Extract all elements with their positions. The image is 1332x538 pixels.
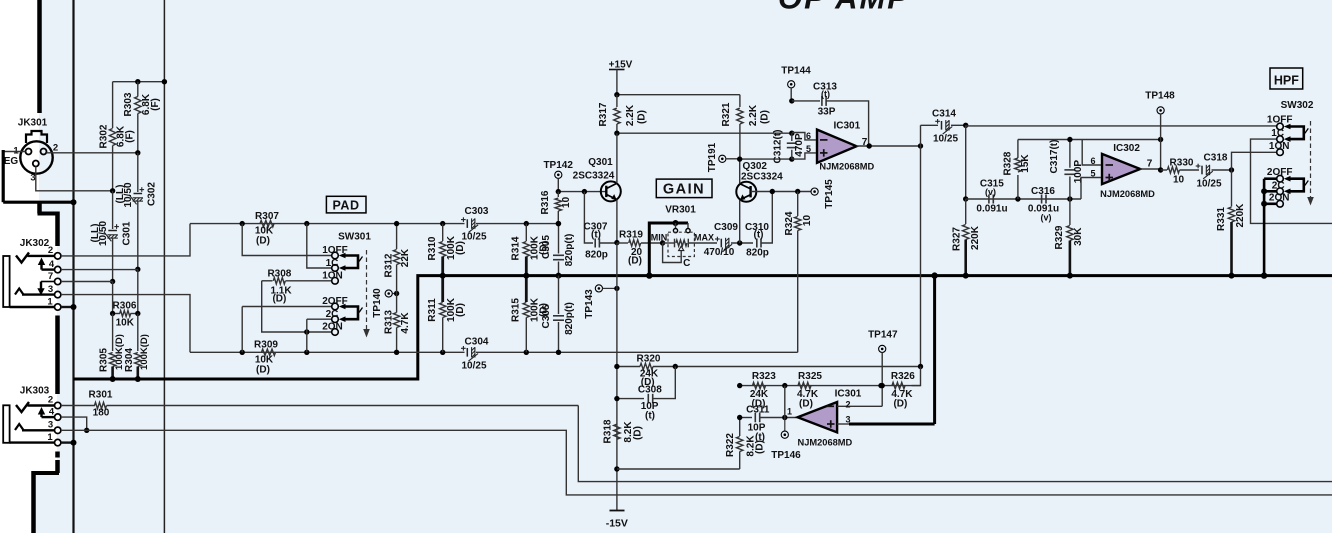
svg-text:R303: R303 <box>123 92 134 116</box>
resistor R314 <box>511 224 550 302</box>
svg-text:1: 1 <box>47 432 53 443</box>
svg-text:NJM2068MD: NJM2068MD <box>798 437 853 447</box>
svg-text:TP148: TP148 <box>1145 90 1175 101</box>
capacitor C313 <box>789 81 869 146</box>
svg-text:3: 3 <box>48 420 53 431</box>
box PAD <box>326 196 366 213</box>
svg-text:2C: 2C <box>1272 180 1285 191</box>
wire JK302 pin3 row <box>61 295 190 353</box>
op-amp IC302 pin6 <box>1082 140 1113 167</box>
svg-text:1C: 1C <box>326 258 339 269</box>
resistor R327 <box>952 199 982 279</box>
svg-text:33P: 33P <box>818 106 836 117</box>
svg-text:C: C <box>683 258 690 269</box>
wire IC302 output <box>1140 159 1163 173</box>
resistor R320 <box>614 354 923 389</box>
capacitor C309 <box>704 222 753 258</box>
connector JK303 ring contact <box>38 407 55 417</box>
resistor R319 <box>617 230 663 267</box>
switch SW301 bracket 1 <box>339 253 363 271</box>
switch SW302 contact 1OFF <box>1267 115 1293 130</box>
node R328 bottom <box>1015 196 1020 201</box>
svg-text:2SC3324: 2SC3324 <box>573 171 615 182</box>
resistor R328 <box>1003 140 1032 200</box>
svg-text:R313: R313 <box>384 310 395 334</box>
testpoint TP140 <box>372 288 399 318</box>
capacitor C310 <box>745 192 772 259</box>
connector JK302 pin1 <box>47 297 61 311</box>
svg-text:10/25: 10/25 <box>1196 178 1221 189</box>
node C314 out <box>963 123 968 128</box>
svg-text:OP AMP: OP AMP <box>778 0 910 16</box>
svg-text:10K: 10K <box>116 318 135 329</box>
switch SW302 bracket 1 <box>1284 124 1309 142</box>
svg-text:R307: R307 <box>255 211 279 222</box>
wire JK302 pin4 row <box>61 269 138 271</box>
svg-text:TP145: TP145 <box>824 179 835 209</box>
resistor R303 <box>123 82 161 153</box>
svg-text:EG: EG <box>4 156 19 167</box>
switch SW302 contact 2ON <box>1269 192 1290 207</box>
svg-text:R329: R329 <box>1054 225 1065 249</box>
svg-text:SW302: SW302 <box>1281 100 1314 111</box>
svg-text:IC302: IC302 <box>1113 143 1140 154</box>
svg-text:-15V: -15V <box>606 518 628 530</box>
svg-text:(t): (t) <box>591 230 601 241</box>
svg-text:MIN: MIN <box>651 232 668 242</box>
switch SW301 linkage dashed <box>363 250 370 338</box>
svg-text:R309: R309 <box>254 340 278 351</box>
node R305 bus junction <box>110 376 116 382</box>
svg-text:MAX: MAX <box>694 232 714 242</box>
wire R308 to 2ON <box>262 281 332 335</box>
connector JK301 pin2 contact <box>41 143 59 155</box>
transistor Q302 <box>736 159 783 243</box>
wire JK301 pin3 down-right <box>36 167 113 191</box>
svg-text:1ON: 1ON <box>322 270 343 281</box>
wire emitter column lower <box>616 243 618 511</box>
resistor R323 <box>750 371 776 409</box>
resistor R309 <box>240 340 310 376</box>
svg-text:30K: 30K <box>1073 227 1084 246</box>
resistor R315 <box>511 297 550 352</box>
wire JK303 pin2 long run <box>578 406 1332 482</box>
resistor R324 <box>784 192 813 353</box>
svg-text:820p: 820p <box>585 249 608 260</box>
capacitor C301 <box>90 191 132 282</box>
switch SW302 contact 1C <box>1271 128 1284 142</box>
svg-text:6: 6 <box>806 131 811 141</box>
svg-text:10/25: 10/25 <box>461 360 486 371</box>
svg-text:R324: R324 <box>784 211 795 235</box>
svg-text:5: 5 <box>806 144 811 154</box>
svg-text:7: 7 <box>1147 159 1153 170</box>
capacitor C307 <box>584 192 617 261</box>
svg-text:R327: R327 <box>952 227 963 251</box>
title OP AMP <box>778 0 910 16</box>
wire output to R320 column <box>920 125 922 366</box>
capacitor C303 <box>440 206 529 243</box>
op-amp IC302 pin5 <box>1081 169 1113 200</box>
resistor R326 <box>891 371 915 409</box>
svg-text:R301: R301 <box>89 390 113 401</box>
svg-text:5: 5 <box>1090 169 1095 179</box>
svg-text:TP191: TP191 <box>707 142 718 172</box>
svg-text:C317(t): C317(t) <box>1049 140 1060 174</box>
wire JK302 pin1 to bus <box>61 304 77 310</box>
svg-text:180: 180 <box>93 408 110 419</box>
svg-text:R320: R320 <box>637 354 661 365</box>
svg-text:C318: C318 <box>1204 152 1228 163</box>
svg-text:R325: R325 <box>798 371 822 382</box>
svg-text:C311: C311 <box>746 404 770 415</box>
resistor R318 <box>603 419 644 443</box>
node VR301 min <box>660 240 665 245</box>
svg-text:(t): (t) <box>821 89 830 99</box>
svg-text:10/25: 10/25 <box>933 133 958 144</box>
testpoint TP146 <box>771 418 801 461</box>
wire R323 row <box>737 383 921 388</box>
pot VR301 top thick <box>649 220 690 276</box>
svg-text:(t): (t) <box>755 432 765 443</box>
svg-text:6: 6 <box>1090 156 1095 166</box>
testpoint TP145 <box>811 179 835 209</box>
svg-text:JK302: JK302 <box>20 238 50 249</box>
svg-text:TP144: TP144 <box>781 66 811 77</box>
testpoint TP142 <box>543 160 573 191</box>
wire HPF mid row <box>966 198 1081 200</box>
svg-text:R311: R311 <box>427 298 438 322</box>
svg-text:2: 2 <box>48 245 53 256</box>
connector JK301 label <box>18 118 48 129</box>
connector JK303 tip contact <box>16 402 55 412</box>
connector JK303 pin2 <box>48 395 61 409</box>
wire JK303 pin3 long run <box>61 430 1332 495</box>
resistor R311 <box>427 297 466 352</box>
switch SW302 contact 1ON <box>1269 141 1290 156</box>
svg-text:10: 10 <box>561 196 572 208</box>
svg-text:2SC3324: 2SC3324 <box>741 172 783 183</box>
capacitor C302 <box>115 153 158 269</box>
svg-text:10: 10 <box>802 215 813 227</box>
svg-text:IC301: IC301 <box>833 120 860 131</box>
box GAIN <box>656 179 712 198</box>
svg-text:2C: 2C <box>326 309 339 320</box>
wire Q302 base row <box>751 189 811 194</box>
svg-text:VR301: VR301 <box>665 204 696 215</box>
svg-text:(D): (D) <box>633 426 644 440</box>
svg-text:PAD: PAD <box>333 198 360 212</box>
svg-text:4.7K: 4.7K <box>400 312 411 334</box>
svg-text:(D): (D) <box>760 110 771 124</box>
svg-text:R319: R319 <box>619 230 643 241</box>
wire IC301 A output <box>857 137 924 149</box>
svg-text:R310: R310 <box>427 236 438 260</box>
svg-text:(F): (F) <box>125 130 136 143</box>
resistor R304 <box>124 314 150 380</box>
switch SW301 label <box>338 232 371 243</box>
connector JK303 pin3 <box>48 420 61 434</box>
switch SW302 contact 2C <box>1272 180 1285 194</box>
connector JK303 body <box>3 405 9 443</box>
wire SW301 1OFF feed <box>242 224 331 256</box>
connector JK302 pin4 <box>49 259 61 273</box>
switch SW301 bracket 2 <box>339 304 363 322</box>
connector JK303 pin1 <box>47 432 61 446</box>
svg-text:R306: R306 <box>113 301 137 312</box>
op-amp IC301 B pin3 <box>827 414 935 427</box>
svg-text:R312: R312 <box>384 253 395 277</box>
node R318 bottom <box>614 466 619 471</box>
resistor R317 <box>598 95 648 134</box>
switch SW301 contact 2OFF <box>322 296 348 310</box>
switch SW301 contact 1C <box>326 258 339 271</box>
svg-text:7: 7 <box>48 271 53 282</box>
svg-text:(D): (D) <box>799 398 813 409</box>
wire +15V row <box>614 92 740 97</box>
switch SW301 contact 1OFF <box>322 245 348 259</box>
svg-text:(D): (D) <box>893 398 907 409</box>
capacitor C318 <box>1196 152 1232 189</box>
testpoint TP143 <box>584 285 620 319</box>
op-amp IC301 B pin2 <box>827 399 883 409</box>
capacitor C317 <box>1049 140 1084 200</box>
connector JK302 pin3 <box>48 284 61 298</box>
wire R317 to C312 row <box>614 131 794 136</box>
svg-text:C316: C316 <box>1031 186 1055 197</box>
node R304 bus junction <box>135 376 141 382</box>
resistor R322 <box>725 418 766 470</box>
connector JK302 body <box>3 256 9 307</box>
svg-text:R331: R331 <box>1216 207 1227 231</box>
connector JK302 label <box>20 238 50 249</box>
svg-text:JK301: JK301 <box>18 118 48 129</box>
power +15V <box>609 60 633 95</box>
node JK301 pin3 junction <box>110 188 115 193</box>
wire SW301 2C feed <box>307 319 332 352</box>
capacitor C308 <box>614 367 675 422</box>
resistor R329 <box>1054 199 1084 279</box>
svg-text:TP140: TP140 <box>372 288 383 318</box>
connector JK302 sleeve contact <box>15 289 55 295</box>
svg-text:C308: C308 <box>638 385 662 396</box>
wire C314 down <box>965 125 967 199</box>
switch SW301 contact 1ON <box>322 270 343 284</box>
svg-text:Q301: Q301 <box>588 157 613 168</box>
svg-text:2ON: 2ON <box>1269 192 1290 203</box>
chassis bar dash below JK303 <box>55 452 60 458</box>
svg-text:1: 1 <box>787 407 792 417</box>
resistor R302 <box>99 82 136 191</box>
svg-text:4: 4 <box>49 407 55 418</box>
svg-text:C304: C304 <box>465 336 489 347</box>
svg-text:2: 2 <box>48 395 53 406</box>
svg-text:TP147: TP147 <box>868 329 898 340</box>
wire SW301 2OFF feed <box>242 307 331 353</box>
svg-text:SW301: SW301 <box>338 232 371 243</box>
svg-text:2: 2 <box>846 399 851 409</box>
svg-text:TP142: TP142 <box>543 160 573 171</box>
testpoint TP148 <box>1145 90 1175 171</box>
svg-text:NJM2068MD: NJM2068MD <box>819 161 874 171</box>
svg-text:R302: R302 <box>99 124 110 148</box>
svg-text:(v): (v) <box>985 187 996 197</box>
svg-text:470P: 470P <box>794 133 805 157</box>
svg-text:2.2K: 2.2K <box>748 104 759 126</box>
svg-text:3: 3 <box>48 284 53 295</box>
capacitor C312 <box>773 130 806 164</box>
resistor R313 <box>384 294 412 355</box>
svg-text:JK303: JK303 <box>20 386 50 397</box>
chassis bar top segment <box>37 0 42 113</box>
wire JK303 pin1 to bus <box>61 440 77 446</box>
connector JK301 pin3 contact <box>30 161 38 184</box>
svg-text:(D): (D) <box>256 236 270 247</box>
resistor R331 <box>1216 170 1246 279</box>
op-amp IC302 <box>1100 143 1155 199</box>
resistor R308 <box>262 268 332 304</box>
connector JK302 tip contact <box>16 253 55 263</box>
svg-text:R316: R316 <box>540 190 551 214</box>
svg-text:R305: R305 <box>99 348 110 372</box>
svg-text:IC301: IC301 <box>835 388 862 399</box>
svg-text:2.2K: 2.2K <box>625 104 636 126</box>
chassis bar below JK301 <box>38 203 58 246</box>
switch SW301 contact 2ON <box>322 322 343 336</box>
svg-text:3: 3 <box>30 173 35 184</box>
svg-text:C305: C305 <box>541 235 552 259</box>
node JK301 pin2 junction <box>135 150 140 155</box>
resistor R305 <box>99 314 125 380</box>
switch SW301 contact 2C <box>326 309 339 322</box>
svg-text:3: 3 <box>846 414 851 424</box>
wire PAD row A <box>190 223 559 225</box>
svg-text:R317: R317 <box>598 102 609 126</box>
svg-text:1: 1 <box>47 297 53 308</box>
switch SW302 label <box>1281 100 1314 111</box>
node VR301 bus <box>646 272 652 278</box>
connector JK302 pin7 contact <box>37 282 54 296</box>
svg-text:(D): (D) <box>628 256 642 267</box>
svg-text:820p(t): 820p(t) <box>564 302 575 335</box>
connector JK302 pin7 <box>48 271 61 285</box>
svg-text:470/10: 470/10 <box>704 247 735 258</box>
wire inverting node <box>784 386 786 418</box>
svg-text:(D): (D) <box>455 241 466 255</box>
svg-text:1C: 1C <box>1271 128 1284 139</box>
connector JK302 pin1 wire <box>10 306 55 308</box>
svg-text:2OFF: 2OFF <box>1267 167 1293 178</box>
resistor R310 <box>427 224 466 302</box>
svg-text:10/50: 10/50 <box>98 221 109 246</box>
svg-text:1OFF: 1OFF <box>1267 115 1293 126</box>
svg-text:4: 4 <box>49 259 55 270</box>
node Q301 emitter row <box>614 240 619 245</box>
svg-text:100K(D): 100K(D) <box>139 334 150 370</box>
connector JK302 pin2 <box>48 245 61 259</box>
svg-text:2: 2 <box>53 143 58 154</box>
node Q302 emitter row <box>737 240 742 245</box>
chassis bar bottom jog <box>34 460 60 533</box>
wire Q302 collector row <box>737 156 795 161</box>
transistor Q301 <box>573 133 621 242</box>
connector JK301 body <box>20 131 52 174</box>
svg-text:(t): (t) <box>754 230 764 241</box>
switch SW302 linkage dashed <box>1307 121 1314 206</box>
resistor R316 <box>540 190 572 226</box>
connector JK303 label <box>20 386 50 397</box>
svg-text:(D): (D) <box>455 303 466 317</box>
svg-text:C312(t): C312(t) <box>773 130 784 164</box>
capacitor C311 labels <box>746 404 770 443</box>
svg-text:(D): (D) <box>256 365 270 376</box>
connector JK302 ring contact <box>38 258 55 270</box>
resistor R312 <box>384 221 412 294</box>
power -15V <box>606 511 628 530</box>
testpoint TP147 <box>868 329 898 406</box>
pot VR301 <box>651 204 717 268</box>
connector JK303 pin1 wire <box>10 441 55 443</box>
wire HPF top row <box>966 125 1277 127</box>
testpoint TP144 <box>781 66 811 101</box>
svg-text:C306: C306 <box>541 304 552 328</box>
svg-text:820p: 820p <box>746 248 769 259</box>
op-amp IC301 A pin5 <box>792 144 828 159</box>
svg-text:R330: R330 <box>1170 157 1194 168</box>
svg-text:C303: C303 <box>465 206 489 217</box>
wire PAD row B <box>190 351 798 353</box>
svg-text:2ON: 2ON <box>322 322 343 333</box>
svg-text:C301: C301 <box>121 221 132 245</box>
wire top row y81.7 <box>113 79 167 84</box>
ground EG thick <box>3 150 76 205</box>
svg-text:820p(t): 820p(t) <box>564 234 575 267</box>
box HPF <box>1270 68 1303 89</box>
connector JK303 sleeve contact <box>15 424 55 430</box>
resistor R307 <box>240 211 310 247</box>
node R310 bus <box>440 273 446 279</box>
svg-text:220K: 220K <box>970 225 981 250</box>
svg-text:R322: R322 <box>725 433 736 457</box>
wire ground bus vertical <box>72 0 74 533</box>
svg-text:(D): (D) <box>272 293 286 304</box>
capacitor C314 <box>921 108 966 144</box>
capacitor C305 <box>541 221 575 279</box>
switch SW302 bracket 2 <box>1284 176 1309 194</box>
wire R318 R322 link <box>617 468 740 470</box>
svg-text:10: 10 <box>1173 174 1185 185</box>
node C315 junction <box>963 196 968 201</box>
resistor R325 <box>797 371 822 409</box>
svg-text:NJM2068MD: NJM2068MD <box>1100 189 1155 199</box>
svg-text:R326: R326 <box>891 371 915 382</box>
wire JK302 pin2 row <box>61 224 190 256</box>
capacitor C304 <box>440 336 529 371</box>
connector JK301 pin1 contact <box>13 146 31 157</box>
capacitor C315 <box>976 178 1007 214</box>
svg-text:10/25: 10/25 <box>461 232 486 243</box>
node C301 pin7 junction <box>110 279 115 284</box>
testpoint TP191 <box>707 142 740 172</box>
switch SW302 contact 2OFF <box>1267 167 1293 182</box>
svg-text:(F): (F) <box>150 98 161 111</box>
wire output to SW302 1ON <box>1232 152 1277 170</box>
svg-text:22K: 22K <box>400 248 411 267</box>
node C317 bottom <box>1067 196 1072 201</box>
wire pin3 thick to bus <box>931 272 937 424</box>
connector JK303 pin4 <box>49 407 61 421</box>
svg-text:10/50: 10/50 <box>123 182 134 207</box>
